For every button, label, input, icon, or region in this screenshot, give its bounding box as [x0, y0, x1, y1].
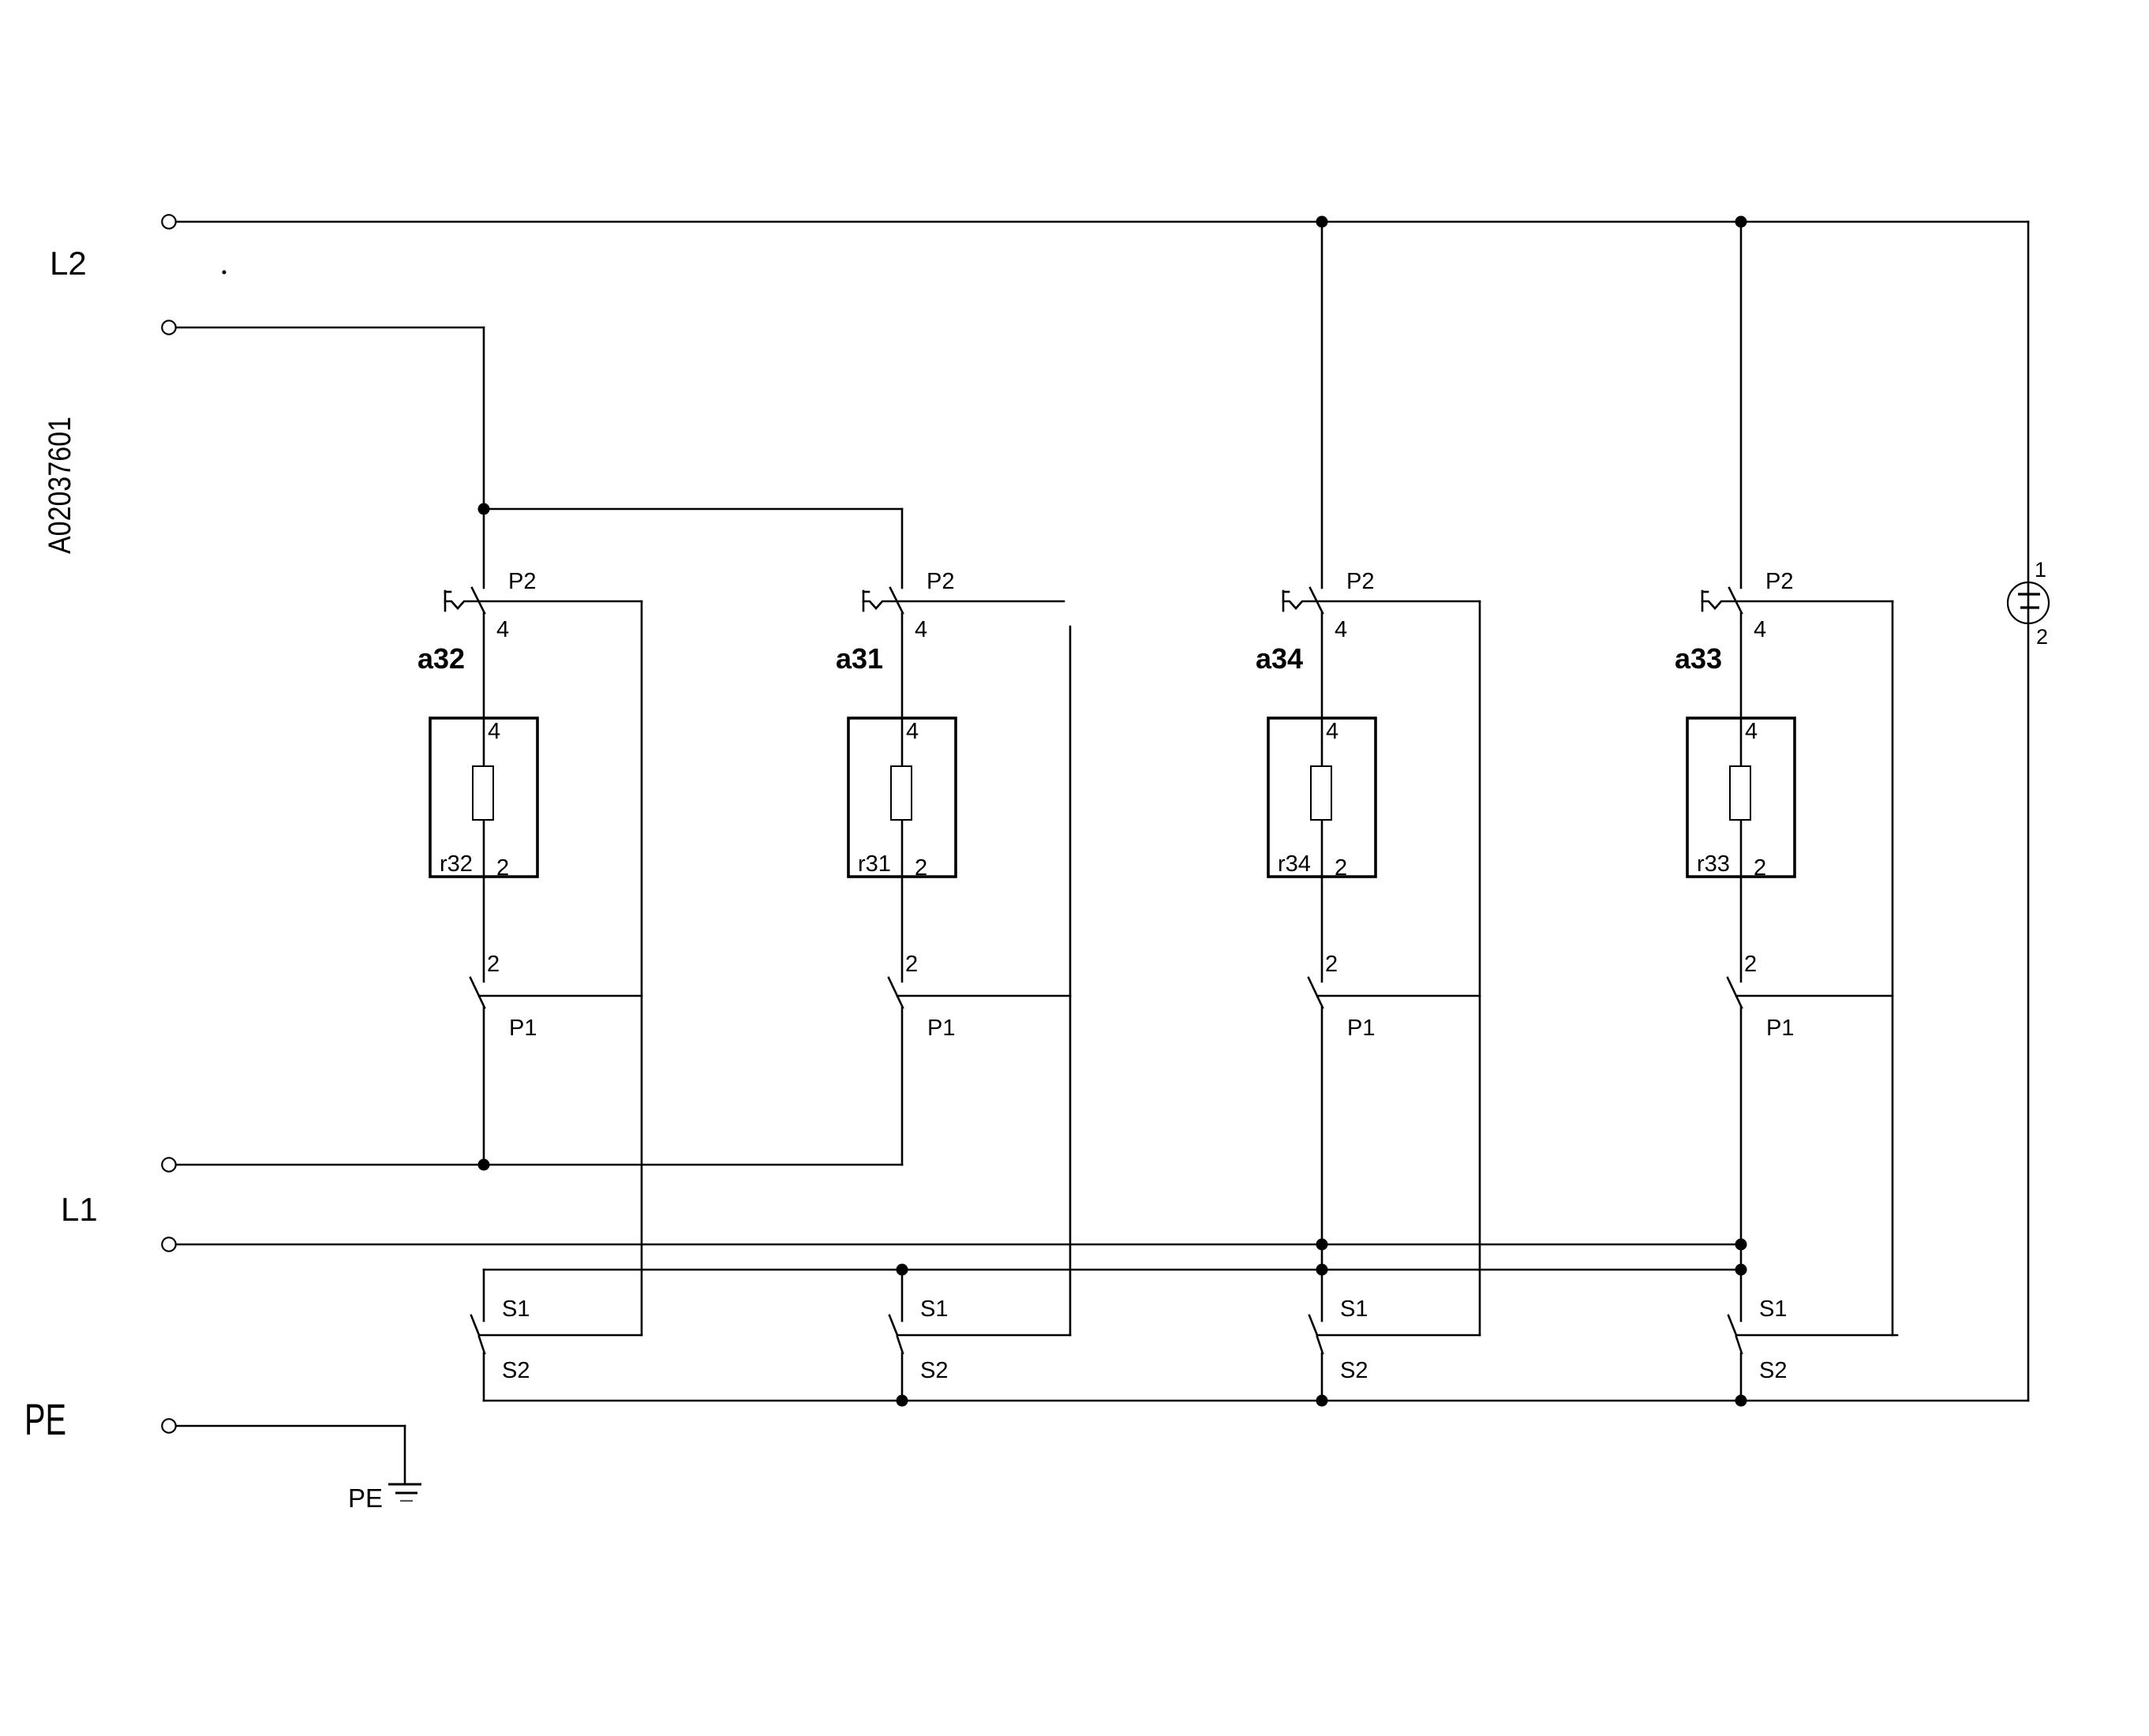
svg-text:2: 2 — [496, 855, 509, 881]
svg-text:4: 4 — [906, 719, 919, 744]
svg-text:P1: P1 — [927, 1016, 955, 1041]
svg-text:L2: L2 — [50, 245, 87, 282]
svg-text:a33: a33 — [1675, 642, 1722, 675]
svg-text:4: 4 — [1335, 617, 1347, 642]
svg-text:4: 4 — [496, 617, 509, 642]
svg-text:1: 1 — [2035, 558, 2046, 582]
svg-text:2: 2 — [1325, 952, 1338, 977]
svg-text:4: 4 — [1326, 719, 1338, 744]
svg-text:S1: S1 — [920, 1296, 948, 1322]
svg-text:P2: P2 — [927, 569, 954, 594]
svg-text:2: 2 — [915, 855, 927, 881]
svg-text:S2: S2 — [1759, 1358, 1787, 1383]
svg-text:P1: P1 — [1347, 1016, 1375, 1041]
svg-text:4: 4 — [488, 719, 500, 744]
svg-text:2: 2 — [905, 952, 918, 977]
svg-text:r31: r31 — [858, 851, 891, 877]
svg-text:L1: L1 — [61, 1191, 98, 1228]
svg-text:a31: a31 — [836, 642, 883, 675]
svg-text:2: 2 — [1744, 952, 1757, 977]
svg-text:S2: S2 — [502, 1358, 530, 1383]
svg-text:P1: P1 — [1766, 1016, 1794, 1041]
svg-text:S2: S2 — [1340, 1358, 1368, 1383]
svg-text:S2: S2 — [920, 1358, 948, 1383]
svg-text:P2: P2 — [508, 569, 536, 594]
svg-text:S1: S1 — [1340, 1296, 1368, 1322]
svg-text:a32: a32 — [417, 642, 465, 675]
svg-text:PE: PE — [348, 1483, 383, 1513]
svg-text:r33: r33 — [1697, 851, 1730, 877]
svg-text:r34: r34 — [1278, 851, 1311, 877]
svg-text:A02037601: A02037601 — [43, 417, 77, 554]
svg-text:S1: S1 — [1759, 1296, 1787, 1322]
svg-text:a34: a34 — [1256, 642, 1303, 675]
svg-text:2: 2 — [1754, 855, 1766, 881]
svg-text:r32: r32 — [440, 851, 473, 877]
svg-text:PE: PE — [24, 1394, 66, 1444]
svg-text:P2: P2 — [1765, 569, 1793, 594]
svg-text:2: 2 — [2036, 625, 2048, 649]
svg-text:4: 4 — [1754, 617, 1766, 642]
svg-text:P2: P2 — [1346, 569, 1374, 594]
svg-text:2: 2 — [487, 952, 500, 977]
svg-text:4: 4 — [915, 617, 927, 642]
svg-text:2: 2 — [1335, 855, 1347, 881]
svg-text:S1: S1 — [502, 1296, 530, 1322]
svg-text:4: 4 — [1745, 719, 1758, 744]
svg-text:P1: P1 — [509, 1016, 537, 1041]
